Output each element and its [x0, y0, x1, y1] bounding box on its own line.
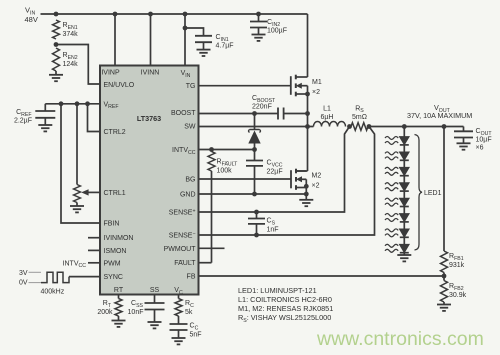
svg-text:0V: 0V — [19, 279, 28, 286]
svg-text:FB: FB — [187, 274, 196, 281]
svg-text:6µH: 6µH — [321, 114, 334, 121]
svg-text:400kHz: 400kHz — [41, 289, 65, 296]
svg-text:CSS: CSS — [131, 300, 144, 309]
svg-text:100k: 100k — [217, 168, 233, 175]
svg-text:L1: L1 — [323, 105, 331, 112]
svg-text:BOOST: BOOST — [171, 110, 196, 117]
svg-text:TG: TG — [186, 83, 196, 90]
svg-text:IVINMON: IVINMON — [104, 235, 134, 242]
svg-text:REN2: REN2 — [63, 52, 78, 61]
svg-text:RFB2: RFB2 — [449, 283, 464, 292]
svg-text:www.cntronics.com: www.cntronics.com — [316, 328, 484, 350]
svg-text:931k: 931k — [449, 262, 465, 269]
svg-text:48V: 48V — [25, 15, 38, 24]
svg-text:M1, M2: RENESAS RJK0851: M1, M2: RENESAS RJK0851 — [238, 304, 333, 313]
svg-text:CREF: CREF — [16, 109, 31, 118]
svg-text:GND: GND — [180, 192, 196, 199]
svg-text:CVCC: CVCC — [267, 160, 283, 169]
svg-text:RS: RS — [355, 105, 364, 114]
svg-text:CIN1: CIN1 — [216, 34, 229, 43]
svg-text:SYNC: SYNC — [104, 274, 123, 281]
svg-text:10nF: 10nF — [128, 309, 144, 316]
svg-text:100µF: 100µF — [267, 28, 287, 35]
svg-text:CIN2: CIN2 — [267, 19, 280, 28]
svg-text:124k: 124k — [63, 61, 79, 68]
svg-text:×2: ×2 — [312, 89, 320, 96]
svg-text:IVINP: IVINP — [101, 70, 120, 77]
svg-text:×2: ×2 — [312, 183, 320, 190]
svg-text:RFB1: RFB1 — [449, 253, 464, 262]
svg-text:SS: SS — [150, 287, 160, 294]
svg-text:200k: 200k — [97, 309, 113, 316]
svg-text:CTRL2: CTRL2 — [104, 129, 126, 136]
svg-text:5nF: 5nF — [190, 332, 202, 339]
svg-text:10µF: 10µF — [476, 137, 492, 144]
svg-text:CTRL1: CTRL1 — [104, 190, 126, 197]
svg-text:4.7µF: 4.7µF — [216, 43, 234, 50]
svg-text:CS: CS — [267, 218, 276, 227]
svg-text:SENSE−: SENSE− — [169, 232, 196, 240]
svg-text:M2: M2 — [312, 173, 322, 180]
svg-text:M1: M1 — [312, 79, 322, 86]
svg-text:22µF: 22µF — [267, 169, 283, 176]
svg-text:FAULT: FAULT — [174, 260, 196, 267]
svg-text:30.9k: 30.9k — [449, 292, 467, 299]
svg-text:COUT: COUT — [476, 128, 493, 137]
svg-text:BG: BG — [185, 177, 195, 184]
svg-text:FBIN: FBIN — [104, 220, 120, 227]
svg-text:37V, 10A MAXIMUM: 37V, 10A MAXIMUM — [407, 111, 472, 120]
svg-text:374k: 374k — [63, 31, 79, 38]
svg-text:RFAULT: RFAULT — [217, 159, 239, 168]
svg-text:5k: 5k — [185, 309, 193, 316]
svg-text:CC: CC — [190, 323, 199, 332]
svg-text:220nF: 220nF — [252, 104, 272, 111]
svg-text:EN/UVLO: EN/UVLO — [104, 82, 135, 89]
svg-text:IVINN: IVINN — [141, 70, 160, 77]
svg-text:PWMOUT: PWMOUT — [164, 246, 197, 253]
svg-text:RT: RT — [114, 287, 124, 294]
svg-text:LED1: LED1 — [424, 190, 442, 197]
svg-text:CBOOST: CBOOST — [252, 95, 276, 104]
svg-text:L1: COILTRONICS HC2-6R0: L1: COILTRONICS HC2-6R0 — [238, 295, 332, 304]
svg-text:2.2µF: 2.2µF — [14, 118, 32, 125]
svg-text:SENSE+: SENSE+ — [169, 209, 196, 217]
svg-text:RC: RC — [185, 300, 194, 309]
svg-text:LED1: LUMINUSPT-121: LED1: LUMINUSPT-121 — [238, 286, 317, 295]
svg-text:INTVCC: INTVCC — [63, 260, 87, 269]
svg-text:1nF: 1nF — [267, 227, 279, 234]
svg-text:ISMON: ISMON — [104, 248, 127, 255]
svg-text:LT3763: LT3763 — [137, 114, 161, 123]
svg-text:PWM: PWM — [104, 260, 121, 267]
svg-text:3V: 3V — [19, 270, 28, 277]
svg-text:REN1: REN1 — [63, 22, 78, 31]
svg-text:RT: RT — [103, 300, 112, 309]
svg-text:5mΩ: 5mΩ — [352, 114, 367, 121]
svg-text:RS: VISHAY WSL25125L000: RS: VISHAY WSL25125L000 — [238, 313, 331, 324]
svg-text:SW: SW — [184, 124, 196, 131]
svg-text:×6: ×6 — [476, 145, 484, 152]
